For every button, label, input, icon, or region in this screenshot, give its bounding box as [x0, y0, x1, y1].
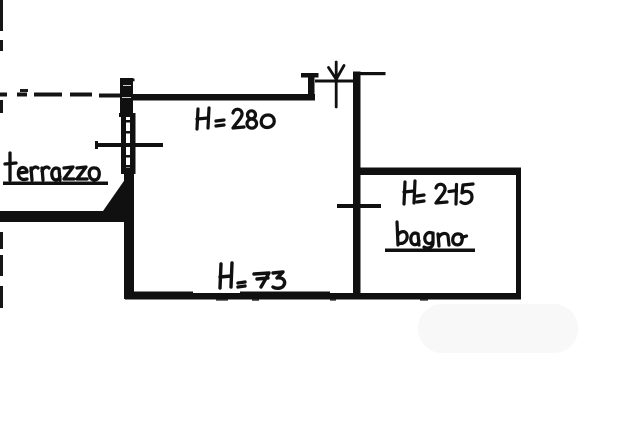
- label H=73: [220, 263, 285, 288]
- dimension tick through window: [95, 141, 163, 149]
- bagno right wall: [516, 168, 521, 300]
- label terrazzo: [5, 153, 99, 180]
- label bagno: [397, 222, 467, 248]
- scan haze blob bottom right: [418, 304, 578, 353]
- small tick above dashed line: [20, 89, 28, 92]
- terrazzo underline: [3, 182, 108, 186]
- top wall right end cap: [301, 73, 319, 78]
- bagno underline: [385, 249, 475, 253]
- top wall right end return (riser): [308, 74, 315, 100]
- top wall of main room: [131, 94, 315, 101]
- bagno top wall: [356, 168, 521, 176]
- left boundary dashed line (vertical): [0, 0, 3, 308]
- terrace wall band with diagonal: [0, 178, 134, 222]
- partition top tick: [353, 72, 386, 75]
- window head crossbar: [119, 113, 135, 117]
- lower left wall (solid): [124, 168, 134, 299]
- vent/window star symbol: [329, 62, 345, 107]
- window lintel line: [315, 80, 355, 83]
- bottom wall: [125, 292, 521, 300]
- terrace boundary dashed line (horizontal): [0, 95, 123, 96]
- window in left wall (double line ladder): [121, 113, 136, 174]
- label H=215: [404, 181, 473, 204]
- label H=280: [197, 108, 274, 129]
- bagno partition wall: [353, 72, 361, 300]
- left wall top block (pier): [120, 78, 135, 114]
- scan speckles under bottom wall: [216, 299, 428, 300]
- partition mid tick: [337, 204, 381, 208]
